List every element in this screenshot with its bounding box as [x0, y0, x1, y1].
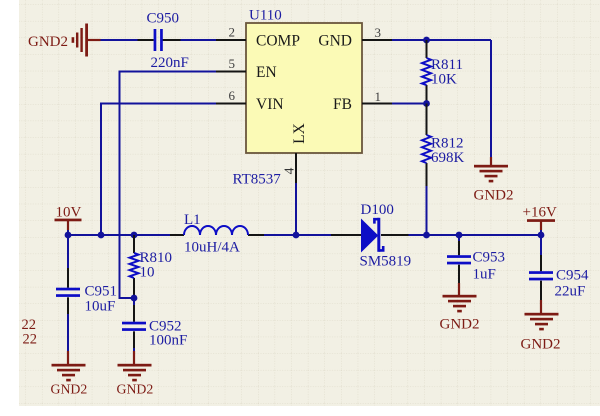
value 10 — [140, 265, 155, 281]
svg-text:C951: C951 — [85, 284, 118, 300]
capacitor C951 plates — [56, 288, 80, 297]
power ground GND2 right of IC — [474, 157, 514, 204]
svg-text:220nF: 220nF — [151, 55, 189, 71]
capacitor C950 plates — [154, 29, 163, 51]
svg-text:C953: C953 — [473, 250, 506, 266]
svg-text:GND2: GND2 — [28, 34, 68, 50]
power port GND2 top-left (rotated earth ground) — [28, 24, 101, 57]
node junction VIN column — [98, 232, 105, 239]
svg-text:2: 2 — [229, 25, 236, 40]
svg-text:10uF: 10uF — [85, 299, 116, 315]
label C950 — [147, 11, 180, 27]
pin number 3 — [375, 25, 382, 40]
svg-text:FB: FB — [333, 96, 352, 113]
pin name COMP — [256, 32, 300, 49]
svg-text:C954: C954 — [556, 268, 589, 284]
node junction R812/rail — [423, 232, 430, 239]
pin 1 FB stub — [362, 103, 392, 105]
pin name VIN — [256, 96, 284, 113]
svg-text:LX: LX — [291, 123, 308, 144]
svg-text:1uF: 1uF — [473, 267, 496, 283]
wire +16V stub to rail — [540, 230, 542, 235]
svg-text:D100: D100 — [361, 202, 394, 218]
wire C950 to pin 2 — [181, 39, 217, 41]
label C954 — [556, 268, 589, 284]
value 10uH/4A — [184, 240, 240, 256]
value 220nF — [151, 55, 189, 71]
wire GND2 to C950 — [101, 39, 138, 41]
node label 22 (lower) — [23, 332, 38, 348]
svg-text:10V: 10V — [56, 205, 82, 221]
capacitor C954 plates — [529, 271, 553, 280]
node junction C953/rail — [456, 232, 463, 239]
value 10K — [431, 72, 457, 88]
svg-text:1: 1 — [375, 89, 382, 104]
label R812 — [431, 136, 464, 152]
diode D100 schottky — [361, 218, 383, 253]
resistor R811 zigzag — [422, 58, 431, 85]
label C953 — [473, 250, 506, 266]
svg-text:EN: EN — [256, 64, 277, 81]
pin 2 COMP stub — [216, 39, 246, 41]
svg-text:U110: U110 — [249, 8, 282, 24]
wire right corner down to ground — [490, 40, 492, 157]
wire 10V stub to rail — [67, 230, 69, 235]
pin name FB — [333, 96, 352, 113]
value 22uF — [555, 284, 586, 300]
svg-text:GND2: GND2 — [51, 382, 88, 397]
label C951 — [85, 284, 118, 300]
svg-text:10uH/4A: 10uH/4A — [184, 240, 240, 256]
pin number 6 — [229, 88, 236, 103]
wire R812 down to output rail — [426, 186, 428, 235]
wire VIN from pin 6 — [101, 104, 216, 236]
label D100 — [361, 202, 394, 218]
node junction R810/EN/C952 — [131, 295, 138, 302]
wire L1 to diode — [264, 234, 331, 236]
inductor L1 pins — [170, 234, 264, 236]
capacitor C953 pins — [458, 235, 460, 283]
diode D100 pins — [331, 234, 409, 236]
wire output rail — [409, 234, 542, 236]
svg-text:4: 4 — [282, 167, 297, 174]
inductor L1 arcs — [184, 226, 248, 235]
pin 3 GND stub — [362, 39, 392, 41]
pin 5 EN stub — [216, 71, 246, 73]
label R811 — [431, 57, 463, 73]
svg-text:C950: C950 — [147, 11, 180, 27]
power ground GND2 under C953 — [440, 283, 480, 333]
node junction LX/rail — [293, 232, 300, 239]
svg-text:GND2: GND2 — [440, 317, 480, 333]
label C952 — [149, 319, 182, 335]
wire pin 3 to right corner — [392, 39, 491, 41]
label R810 — [140, 250, 173, 266]
wire EN from pin 5 — [120, 72, 217, 299]
pin number 2 — [229, 25, 236, 40]
svg-text:RT8537: RT8537 — [233, 172, 282, 188]
node junction 10V/C951 — [65, 232, 72, 239]
node junction R810 column — [131, 232, 138, 239]
power ground GND2 under C954 — [521, 300, 561, 353]
svg-text:SM5819: SM5819 — [360, 254, 412, 270]
value 10uF — [85, 299, 116, 315]
svg-text:3: 3 — [375, 25, 382, 40]
pin number 1 — [375, 89, 382, 104]
svg-text:100nF: 100nF — [149, 333, 187, 349]
node junction FB/R811/R812 — [423, 100, 430, 107]
svg-text:10: 10 — [140, 265, 155, 281]
wire LX column — [295, 183, 297, 235]
capacitor C950 pins (black) — [138, 39, 181, 41]
capacitor C954 pins — [540, 235, 542, 300]
label RT8537 — [233, 172, 282, 188]
op IC U110 body — [246, 23, 362, 153]
label U110 — [249, 8, 282, 24]
pin 4 LX stub — [295, 153, 297, 183]
pin number 5 — [229, 56, 236, 71]
svg-text:10K: 10K — [431, 72, 457, 88]
resistor R810 pins — [133, 235, 135, 298]
svg-text:6: 6 — [229, 88, 236, 103]
svg-text:VIN: VIN — [256, 96, 284, 113]
svg-text:+16V: +16V — [523, 205, 557, 221]
pin name EN — [256, 64, 277, 81]
node label 22 (upper) — [22, 317, 37, 333]
svg-text:GND2: GND2 — [521, 337, 561, 353]
pin name GND — [318, 32, 352, 49]
svg-text:22: 22 — [23, 332, 38, 348]
svg-text:5: 5 — [229, 56, 236, 71]
pin number 4 — [282, 167, 297, 174]
resistor R812 zigzag — [422, 135, 431, 163]
svg-text:698K: 698K — [431, 150, 465, 166]
value SM5819 — [360, 254, 412, 270]
svg-text:COMP: COMP — [256, 32, 300, 49]
wire input rail — [68, 234, 170, 236]
capacitor C951 pins — [67, 235, 69, 351]
node junction +16V/C954 — [538, 232, 545, 239]
pin 6 VIN stub — [216, 103, 246, 105]
svg-text:L1: L1 — [184, 212, 201, 228]
power ground GND2 under C952 — [117, 351, 154, 397]
wire pin 1 to junction — [392, 103, 427, 105]
value 698K — [431, 150, 465, 166]
node junction pin3/R811 — [423, 37, 430, 44]
capacitor C953 plates — [447, 255, 471, 264]
resistor R810 zigzag — [130, 253, 139, 278]
resistor R811 pins — [426, 40, 428, 104]
svg-text:GND2: GND2 — [474, 188, 514, 204]
capacitor C952 plates — [122, 322, 146, 331]
power port +16V — [523, 205, 557, 231]
capacitor C952 pins — [133, 298, 135, 351]
svg-text:22uF: 22uF — [555, 284, 586, 300]
power port 10V — [55, 205, 82, 231]
pin name LX — [291, 123, 308, 144]
value 100nF — [149, 333, 187, 349]
svg-text:GND2: GND2 — [117, 382, 154, 397]
resistor R812 pins — [426, 104, 428, 187]
value 1uF — [473, 267, 496, 283]
power ground GND2 under C951 — [51, 351, 88, 397]
svg-text:GND: GND — [318, 32, 352, 49]
label L1 — [184, 212, 201, 228]
